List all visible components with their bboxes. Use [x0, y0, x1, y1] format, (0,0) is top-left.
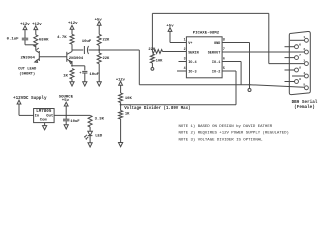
resistor 22K upper — [97, 34, 110, 50]
LED indicator — [85, 127, 103, 143]
wire node to Q1 collector — [25, 45, 36, 51]
svg-text:IO-1: IO-1 — [212, 61, 220, 65]
svg-text:10uF: 10uF — [89, 73, 99, 77]
svg-text:SERIN: SERIN — [188, 52, 199, 56]
wire Q1 to Q2 base — [39, 56, 67, 58]
svg-text:7: 7 — [223, 47, 225, 51]
IC U1 PICAXE-08M2 box — [186, 31, 222, 77]
svg-text:LM7805: LM7805 — [36, 110, 52, 114]
ground (below LED) — [88, 143, 92, 147]
svg-text:CUT LEAD: CUT LEAD — [18, 68, 37, 72]
DB9 pin 6 — [285, 42, 302, 48]
resistor 22K lower — [97, 50, 110, 82]
svg-text:10uF: 10uF — [82, 40, 92, 44]
capacitor 10uF coupling — [82, 40, 100, 54]
wire SEROUT to DB9 pin2 — [222, 51, 304, 53]
svg-text:680K: 680K — [39, 39, 49, 43]
capacitor 10uF output filter — [63, 115, 80, 124]
power +5V supply arrow (IC V+) — [166, 25, 186, 43]
wire top rail (DB9 pin3 to 22K) — [152, 13, 268, 51]
wire ground to DB9 pin5 — [250, 85, 305, 88]
svg-text:4: 4 — [184, 66, 186, 70]
resistor 1K — [63, 69, 74, 82]
resistor 10K serial in pulldown — [150, 54, 163, 68]
svg-text:NOTE 1) BASED ON DESIGN by DAV: NOTE 1) BASED ON DESIGN by DAVID EATHER — [179, 124, 273, 129]
svg-text:PICAXE-08M2: PICAXE-08M2 — [193, 31, 220, 35]
resistor 3.3K LED — [88, 115, 105, 127]
wire IO-2 to voltage divider tap — [121, 71, 236, 105]
label CUT LEAD (SHORT) — [18, 68, 37, 77]
IC pin numbers left — [184, 38, 186, 71]
node junction dot (ground) — [249, 84, 251, 86]
svg-text:10K: 10K — [125, 97, 133, 101]
ground (below 22K divider) — [97, 82, 101, 86]
DB9 pin 4 stub — [292, 75, 304, 77]
DB9 pin 7 — [285, 53, 302, 59]
svg-text:2N3904: 2N3904 — [20, 56, 35, 60]
ground (below 10uF filter) — [64, 125, 68, 129]
wire noise output to rail — [99, 50, 139, 85]
svg-text:10K: 10K — [156, 60, 164, 64]
svg-text:LED: LED — [95, 135, 103, 139]
svg-text:NOTE 3) VOLTAGE DIVIDER IS OPT: NOTE 3) VOLTAGE DIVIDER IS OPTIONAL — [179, 138, 264, 143]
resistor 680K — [34, 35, 49, 47]
DB9 pin 1 stub — [290, 39, 304, 41]
svg-text:3: 3 — [184, 57, 186, 61]
wire LM7805 Com to ground — [44, 123, 46, 126]
svg-text:2N3904: 2N3904 — [69, 57, 84, 61]
svg-text:Com: Com — [40, 119, 48, 123]
ground (below voltage divider) — [119, 143, 123, 147]
label DB9 Serial (Female) — [292, 100, 318, 110]
svg-text:2: 2 — [184, 47, 186, 51]
IC pin labels left — [188, 42, 199, 75]
svg-text:1K: 1K — [63, 75, 68, 79]
svg-text:V+: V+ — [188, 42, 192, 46]
ground (below 1K) — [70, 82, 74, 86]
svg-text:4: 4 — [303, 71, 305, 75]
svg-text:0.1uF: 0.1uF — [7, 38, 20, 42]
svg-text:10uF: 10uF — [70, 120, 80, 124]
IC pin numbers right — [223, 38, 225, 71]
svg-text:(Female): (Female) — [294, 105, 315, 110]
svg-text:IO-2: IO-2 — [212, 71, 220, 75]
svg-text:+12v: +12v — [68, 22, 78, 26]
svg-text:1: 1 — [184, 38, 186, 42]
svg-text:1K: 1K — [125, 112, 130, 116]
power +12V supply arrow (voltage divider) — [116, 78, 126, 93]
regulator LM7805 box — [34, 109, 55, 123]
IC pin stub IO-3 (pin 4) — [177, 70, 186, 72]
wire noise rail (horizontal) — [139, 84, 249, 86]
svg-text:3.3K: 3.3K — [95, 117, 105, 121]
ground (below bypass cap) — [83, 82, 87, 86]
svg-text:1: 1 — [303, 35, 305, 39]
resistor 10K divider top — [119, 93, 133, 106]
resistor 4.7K — [57, 34, 74, 44]
DB9 pin 8 — [285, 66, 302, 72]
svg-text:SEROUT: SEROUT — [208, 52, 221, 56]
svg-text:+: + — [79, 72, 81, 76]
power +12V supply arrow (over R 4.7K) — [68, 22, 78, 34]
svg-text:5: 5 — [303, 83, 305, 87]
label Voltage Divider — [124, 106, 190, 111]
DB9 pin 4 — [303, 71, 308, 78]
svg-text:8: 8 — [299, 66, 301, 70]
transistor Q2 2N3904 (amplifier) — [67, 52, 84, 64]
svg-text:8: 8 — [223, 38, 225, 42]
wire LM7805 Out rail — [54, 114, 90, 116]
resistor 22K serial in (horizontal) — [148, 48, 186, 54]
wire Q2 emitter junction — [71, 62, 85, 70]
node junction dot (source) — [65, 115, 67, 117]
node junction dot (bias node) — [98, 49, 100, 51]
ground (below LM7805) — [43, 126, 47, 130]
terminal circle (0V) — [248, 85, 251, 92]
notes text — [179, 124, 289, 143]
terminal circle (10K to 0V) — [151, 68, 154, 71]
svg-text:(SHORT): (SHORT) — [19, 72, 35, 77]
svg-text:IO-3: IO-3 — [188, 71, 196, 75]
power +12V supply arrow (over R 680K) — [32, 23, 42, 35]
svg-text:4.7K: 4.7K — [57, 36, 67, 40]
resistor 1K divider bottom — [119, 105, 131, 143]
svg-text:Voltage Divider (1.89V Max): Voltage Divider (1.89V Max) — [124, 106, 190, 111]
svg-text:NOTE 2) REQUIRES +12V POWER SU: NOTE 2) REQUIRES +12V POWER SUPPLY (REGU… — [179, 131, 289, 136]
svg-text:6: 6 — [299, 42, 301, 46]
DB9 pin 1 — [303, 35, 308, 42]
svg-text:+12VDC Supply: +12VDC Supply — [13, 96, 47, 101]
connector J1 DB9 outline — [289, 31, 310, 94]
svg-text:3: 3 — [303, 58, 305, 62]
svg-text:9: 9 — [299, 77, 301, 81]
transistor Q1 2N3904 (noise source) — [20, 48, 39, 62]
wire IO-1 to noise rail — [222, 62, 241, 85]
wire DB9 pin3 drop — [269, 13, 304, 63]
svg-text:DB9 Serial: DB9 Serial — [292, 100, 318, 105]
IC pin labels right — [208, 42, 221, 75]
svg-text:GND: GND — [214, 42, 220, 46]
svg-text:Out: Out — [46, 115, 53, 119]
wire collector node — [72, 44, 83, 51]
capacitor 10uF emitter bypass — [79, 71, 99, 81]
svg-text:5: 5 — [223, 66, 225, 70]
svg-text:22K: 22K — [148, 48, 156, 52]
svg-text:2: 2 — [303, 47, 305, 51]
DB9 pin 3 — [303, 58, 308, 65]
svg-text:7: 7 — [299, 53, 301, 57]
power +12V supply arrow (left, over C 0.1uF) — [20, 23, 30, 38]
DB9 pin 5 — [303, 83, 308, 90]
power +5V supply arrow (over 22K divider) — [95, 18, 103, 34]
svg-text:22K: 22K — [103, 39, 111, 43]
svg-text:22K: 22K — [103, 57, 111, 61]
DB9 pin 2 — [303, 47, 308, 54]
IC pin stub IO-4 (pin 3) — [179, 61, 187, 63]
capacitor 0.1uF — [7, 38, 29, 45]
power SOURCE +5v arrow — [59, 96, 74, 116]
power +12VDC input arrow — [17, 100, 33, 115]
wire IC GND to ground rail — [222, 43, 249, 85]
svg-text:+12v: +12v — [32, 23, 42, 27]
svg-text:IO-4: IO-4 — [188, 61, 196, 65]
label +12VDC Supply — [13, 96, 47, 101]
svg-text:6: 6 — [223, 57, 225, 61]
DB9 pin 9 — [285, 77, 302, 83]
